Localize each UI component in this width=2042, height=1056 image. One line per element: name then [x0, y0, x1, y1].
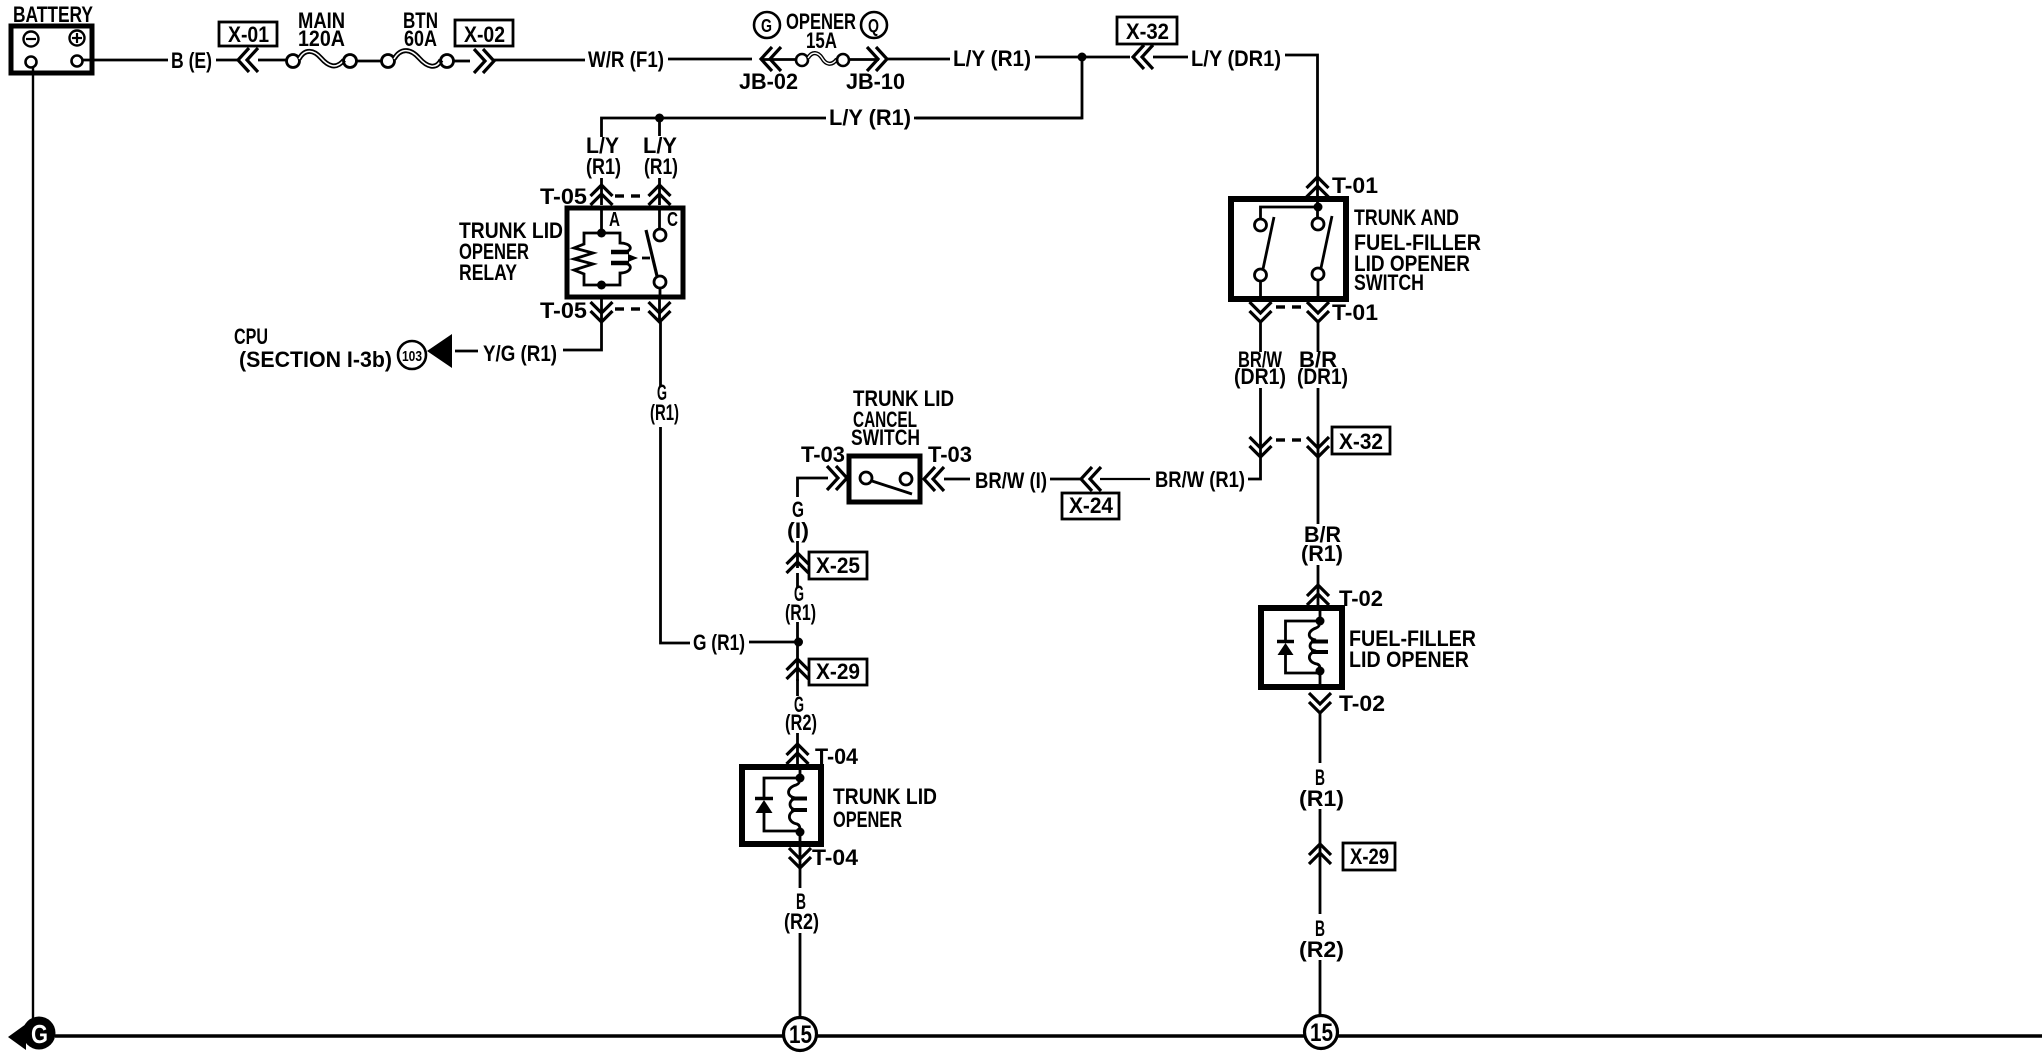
- svg-text:X-01: X-01: [228, 22, 269, 47]
- connector T-01 top: [1307, 173, 1379, 198]
- wire BR/W (R1) to cancel switch: [1248, 457, 1261, 479]
- svg-text:103: 103: [402, 348, 422, 365]
- svg-text:X-24: X-24: [1069, 493, 1113, 518]
- fuse OPENER 15A with junction blocks: [739, 9, 905, 94]
- solenoid coil: [789, 778, 801, 832]
- svg-text:T-04: T-04: [812, 845, 858, 870]
- svg-text:(R2): (R2): [785, 710, 817, 735]
- svg-text:(SECTION I-3b): (SECTION I-3b): [239, 347, 392, 372]
- svg-text:BR/W (I): BR/W (I): [975, 468, 1047, 493]
- relay coil: [574, 210, 650, 290]
- CPU reference arrow and page circle 103: [234, 324, 452, 372]
- svg-text:15: 15: [1310, 1019, 1333, 1047]
- junction node G (R1): [794, 638, 803, 647]
- svg-text:G: G: [31, 1019, 48, 1049]
- battery: [11, 2, 93, 73]
- ground bus line: [55, 1034, 2042, 1038]
- svg-text:T-02: T-02: [1339, 586, 1383, 611]
- ground circle 15 (left): [784, 1018, 817, 1051]
- wire Y/G (R1) to CPU: [563, 322, 602, 350]
- svg-text:T-01: T-01: [1332, 173, 1378, 198]
- svg-text:T-02: T-02: [1339, 691, 1385, 716]
- connector X-32 (lower): [1250, 427, 1391, 457]
- svg-text:OPENER: OPENER: [833, 807, 902, 832]
- svg-text:SWITCH: SWITCH: [1354, 270, 1424, 295]
- wire battery negative to ground (left side vertical): [32, 68, 34, 1019]
- relay U1 TRUNK LID OPENER RELAY box: [459, 208, 683, 297]
- wire into cancel switch left, down to G (I): [798, 478, 829, 497]
- svg-text:L/Y (R1): L/Y (R1): [953, 46, 1031, 71]
- svg-text:X-32: X-32: [1339, 429, 1383, 454]
- svg-text:(I): (I): [787, 518, 809, 543]
- svg-text:A: A: [609, 209, 620, 231]
- wire B/R (R1) down right branch: [1317, 457, 1320, 524]
- junction node: [1078, 53, 1087, 62]
- wire: [216, 59, 240, 62]
- switch S1 TRUNK AND FUEL-FILLER LID OPENER SWITCH: [1231, 199, 1481, 302]
- wire: [357, 60, 382, 63]
- switch S2 TRUNK LID CANCEL SWITCH: [801, 386, 972, 502]
- svg-text:LID OPENER: LID OPENER: [1349, 647, 1469, 672]
- svg-text:BR/W (R1): BR/W (R1): [1155, 467, 1245, 492]
- svg-text:Y/G (R1): Y/G (R1): [483, 341, 557, 366]
- connector X-29 (right): [1309, 843, 1395, 870]
- svg-text:CPU: CPU: [234, 324, 268, 349]
- connector X-02: [455, 20, 513, 73]
- svg-text:15: 15: [789, 1021, 812, 1049]
- wire G (R1) from relay contact down: [659, 322, 662, 386]
- wire: [454, 60, 470, 63]
- svg-text:BATTERY: BATTERY: [13, 2, 93, 27]
- fuse MAIN 120A: [287, 8, 357, 68]
- svg-text:JB-10: JB-10: [846, 69, 905, 94]
- relay switch contacts: [646, 210, 666, 296]
- junction node: [655, 114, 664, 123]
- svg-text:SWITCH: SWITCH: [851, 425, 920, 450]
- wire: [258, 59, 287, 62]
- svg-text:T-05: T-05: [540, 184, 587, 209]
- ground symbol G: [8, 1017, 56, 1051]
- fuse BTN 60A: [382, 8, 454, 68]
- svg-text:B (E): B (E): [171, 48, 212, 73]
- connector X-24: [1062, 467, 1119, 519]
- wire W/R (F1): [494, 59, 585, 62]
- connector X-29: [787, 659, 868, 685]
- svg-text:(R1): (R1): [650, 400, 679, 425]
- svg-text:Q: Q: [868, 16, 879, 36]
- connector X-32 (top): [1117, 17, 1177, 69]
- connector T-04 bottom: [789, 845, 858, 870]
- svg-text:RELAY: RELAY: [459, 260, 517, 285]
- svg-text:JB-02: JB-02: [739, 69, 798, 94]
- connector T-02 top: [1307, 585, 1383, 611]
- connector T-02 bottom: [1309, 691, 1385, 716]
- svg-text:G: G: [761, 16, 772, 36]
- svg-text:(R1): (R1): [1301, 541, 1343, 566]
- svg-text:(R1): (R1): [586, 154, 621, 179]
- svg-text:60A: 60A: [404, 26, 437, 51]
- svg-text:X-29: X-29: [1350, 844, 1389, 869]
- svg-text:(R2): (R2): [1299, 937, 1344, 962]
- svg-text:X-02: X-02: [464, 22, 505, 47]
- actuator M1 TRUNK LID OPENER: [742, 767, 937, 866]
- svg-text:L/Y (R1): L/Y (R1): [829, 105, 911, 130]
- svg-text:(DR1): (DR1): [1234, 364, 1286, 389]
- connector T-01 bottom: [1250, 300, 1379, 325]
- wire branch from junction down-left L/Y (R1): [916, 57, 1082, 118]
- svg-text:X-25: X-25: [816, 553, 860, 578]
- svg-text:X-32: X-32: [1126, 19, 1169, 44]
- connector X-25: [787, 552, 868, 579]
- svg-text:W/R (F1): W/R (F1): [588, 47, 664, 72]
- wire L/Y (DR1): [1153, 56, 1188, 59]
- svg-text:TRUNK AND: TRUNK AND: [1354, 205, 1459, 230]
- svg-text:T-03: T-03: [928, 442, 972, 467]
- svg-text:(R1): (R1): [644, 154, 678, 179]
- svg-text:(R1): (R1): [1299, 786, 1344, 811]
- actuator M2 FUEL-FILLER LID OPENER: [1261, 608, 1476, 690]
- svg-text:X-29: X-29: [816, 659, 860, 684]
- svg-text:T-05: T-05: [540, 298, 587, 323]
- svg-text:15A: 15A: [806, 28, 837, 53]
- svg-text:G (R1): G (R1): [693, 630, 745, 655]
- svg-text:(DR1): (DR1): [1297, 364, 1348, 389]
- wire battery positive B (E): [83, 59, 168, 62]
- svg-text:(R2): (R2): [784, 909, 819, 934]
- wire L/Y (R1) top: [887, 58, 950, 61]
- svg-text:TRUNK LID: TRUNK LID: [833, 784, 937, 809]
- svg-text:120A: 120A: [298, 26, 345, 51]
- svg-text:T-03: T-03: [801, 442, 845, 467]
- wire labels BR/W (DR1) and B/R (DR1): [1234, 347, 1348, 389]
- diode branch: [764, 778, 800, 797]
- svg-text:(R1): (R1): [785, 600, 816, 625]
- ground circle 15 (right): [1305, 1016, 1338, 1049]
- connector T-04 top: [787, 744, 859, 769]
- svg-text:L/Y (DR1): L/Y (DR1): [1191, 46, 1281, 71]
- svg-text:C: C: [667, 209, 678, 231]
- connector X-01: [219, 22, 277, 72]
- wire label L/Y (R1) left pair: [586, 133, 678, 179]
- svg-text:T-01: T-01: [1332, 300, 1378, 325]
- connector T-05 bottom: [540, 297, 671, 323]
- connector T-05 top: [540, 184, 671, 209]
